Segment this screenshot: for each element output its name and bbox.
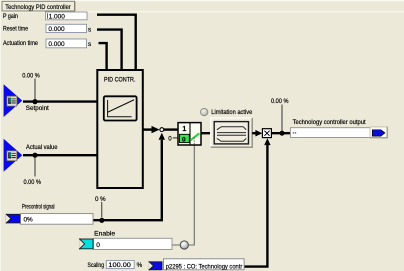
svg-text:0.000: 0.000 — [48, 41, 65, 48]
svg-text:0.00 %: 0.00 % — [24, 179, 42, 186]
svg-text:Actual value: Actual value — [26, 144, 58, 151]
svg-text:P gain: P gain — [3, 13, 18, 20]
svg-text:0 %: 0 % — [95, 196, 106, 203]
svg-text:s: s — [88, 26, 91, 33]
svg-text:Precontrol signal: Precontrol signal — [22, 204, 55, 211]
svg-text:0.000: 0.000 — [48, 26, 65, 33]
svg-text:1.000: 1.000 — [49, 13, 66, 20]
svg-text:0.00 %: 0.00 % — [22, 72, 40, 79]
svg-text:Technology PID controller: Technology PID controller — [5, 4, 71, 11]
svg-text:p2295 : CO: Technology contr: p2295 : CO: Technology contr — [166, 263, 243, 270]
svg-text:0%: 0% — [24, 216, 34, 223]
svg-text:1: 1 — [182, 126, 186, 133]
svg-text:0: 0 — [182, 137, 186, 144]
svg-text:%: % — [137, 262, 143, 269]
svg-text:0: 0 — [96, 242, 100, 249]
svg-text:0.00 %: 0.00 % — [271, 98, 289, 105]
svg-text:Scaling: Scaling — [88, 262, 105, 269]
svg-text:Actuation time: Actuation time — [3, 40, 38, 47]
svg-text:s: s — [88, 41, 91, 48]
svg-text:Setpoint: Setpoint — [26, 105, 49, 112]
svg-text:Technology controller output: Technology controller output — [293, 119, 366, 126]
svg-text:Limitation active: Limitation active — [211, 109, 252, 116]
svg-text:100.00: 100.00 — [108, 262, 131, 269]
svg-text:PID CONTR.: PID CONTR. — [104, 77, 136, 84]
svg-text:Reset time: Reset time — [3, 26, 28, 33]
svg-text:0: 0 — [168, 135, 172, 142]
svg-text:Enable: Enable — [94, 230, 115, 237]
